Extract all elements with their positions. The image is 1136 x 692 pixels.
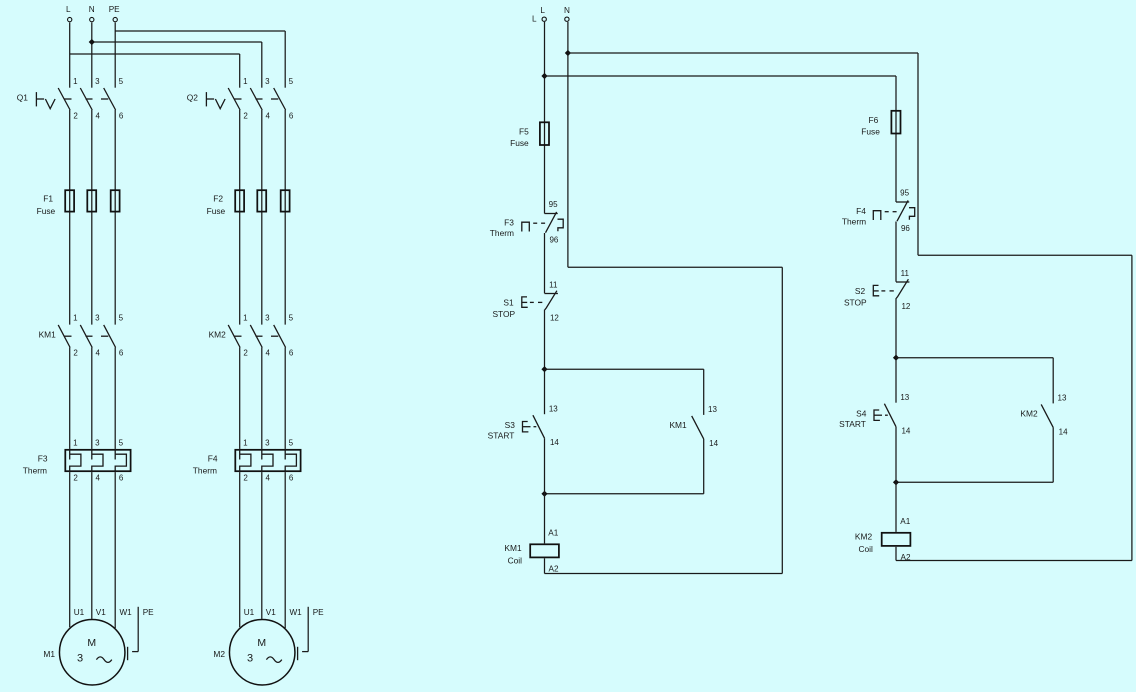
svg-text:3: 3 (265, 314, 270, 323)
NO pushbutton contact (874, 393, 911, 436)
Q1 linkage (64, 98, 71, 100)
svg-text:4: 4 (95, 349, 100, 358)
wire N rail to branch 2 (568, 52, 918, 54)
svg-text:Therm: Therm (23, 465, 47, 475)
svg-text:W1: W1 (289, 608, 302, 617)
svg-text:N: N (89, 5, 95, 14)
svg-text:W1: W1 (119, 608, 132, 617)
svg-text:PE: PE (143, 608, 154, 617)
Q2 pole blade 5-6 (274, 88, 286, 110)
wire control L vertical (terminal to F5) (544, 22, 546, 214)
svg-text:Coil: Coil (858, 544, 873, 554)
svg-text:STOP: STOP (492, 309, 515, 319)
svg-text:M1: M1 (43, 649, 55, 659)
svg-text:M: M (87, 637, 96, 649)
F1 cartridge 3 (111, 190, 120, 211)
svg-text:3: 3 (247, 652, 253, 664)
svg-text:START: START (488, 431, 515, 441)
M1 sine symbol (96, 657, 111, 663)
wire V1 (F3 to motor M1) (91, 472, 93, 619)
svg-text:Fuse: Fuse (37, 206, 56, 216)
pushbutton actuator (873, 285, 879, 295)
wire S2 to S4 (895, 298, 897, 403)
seat (545, 213, 558, 215)
svg-text:96: 96 (901, 224, 910, 233)
blade (896, 279, 908, 298)
svg-text:U1: U1 (244, 608, 255, 617)
svg-text:4: 4 (95, 112, 100, 121)
svg-text:2: 2 (73, 112, 78, 121)
wire PE (Q1 to KM1 through F1) (114, 110, 116, 325)
svg-text:F4: F4 (208, 453, 218, 463)
svg-text:V1: V1 (266, 608, 276, 617)
motor M1 (43, 608, 132, 685)
thermal overload relay F3 (23, 439, 131, 483)
seat (896, 281, 909, 283)
pushbutton actuator (523, 422, 529, 432)
svg-text:L: L (66, 5, 71, 14)
svg-text:6: 6 (119, 349, 124, 358)
blade (546, 212, 557, 233)
wire F3 to S1 (544, 233, 546, 293)
svg-text:U1: U1 (74, 608, 85, 617)
wire F4 to S2 (895, 222, 897, 282)
KM2 linkage (234, 335, 241, 337)
motor frame terminal tick (127, 647, 129, 660)
thermal actuator hook (558, 219, 564, 231)
svg-text:6: 6 (289, 112, 294, 121)
svg-text:Coil: Coil (508, 556, 523, 566)
svg-text:3: 3 (95, 314, 100, 323)
svg-text:1: 1 (73, 439, 78, 448)
wire N return vertical (branch 2) (1131, 255, 1133, 560)
blade (533, 415, 545, 438)
M2 body circle (229, 619, 295, 685)
KM2 pole blade 1-2 (228, 325, 240, 348)
PE stub to motor frame (298, 607, 325, 660)
wire N vertical (terminal to Q1) (91, 22, 93, 87)
KM1 linkage (64, 335, 71, 337)
F2 cartridge 1 (235, 190, 244, 211)
pushbutton actuator (522, 297, 528, 307)
blade (545, 291, 557, 310)
Q1 pole blade 5-6 (104, 88, 116, 110)
svg-text:KM1: KM1 (39, 329, 57, 339)
wire KM2 aux lower (1052, 427, 1054, 482)
wire KM1 aux lower (703, 439, 705, 494)
fuse F2 (3x) (207, 190, 290, 216)
linkage dashes (885, 211, 889, 213)
fuse F6 (861, 111, 900, 137)
svg-text:S3: S3 (505, 420, 516, 430)
terminal N (89, 5, 95, 22)
wire A2 horizontal return (2) (896, 560, 1132, 562)
svg-text:KM2: KM2 (855, 531, 873, 541)
KM2 pole blade 5-6 (274, 325, 286, 348)
PE stub to motor frame (128, 607, 155, 660)
F3 heater element 1 (70, 449, 81, 472)
wire coil KM1 to return (544, 558, 546, 573)
Q1 pole blade 1-2 (58, 88, 70, 110)
svg-text:START: START (839, 419, 866, 429)
wire S1 to S3 (544, 310, 546, 415)
svg-text:M2: M2 (213, 649, 225, 659)
wire A2 horizontal return (545, 573, 783, 575)
wire L vertical (terminal to Q1) (69, 22, 71, 87)
KM1 pole blade 5-6 (104, 325, 116, 348)
svg-text:1: 1 (243, 314, 248, 323)
wire PE drop to Q2 (284, 31, 286, 88)
svg-text:F4: F4 (856, 206, 866, 216)
junction on N rail (89, 39, 95, 45)
svg-text:3: 3 (265, 77, 270, 86)
F1 cartridge 1 (65, 190, 74, 211)
svg-text:5: 5 (289, 77, 294, 86)
NC pushbutton contact (873, 269, 911, 311)
Q2 pole blade 1-2 (228, 88, 240, 110)
wire PE horizontal (132, 651, 138, 653)
svg-text:3: 3 (77, 652, 83, 664)
wire control N vertical (567, 22, 569, 267)
svg-text:6: 6 (289, 349, 294, 358)
svg-text:95: 95 (549, 200, 558, 209)
linkage dashes (533, 222, 537, 224)
F2 cartridge 2 (257, 190, 266, 211)
wire L (KM2 to F4) (239, 348, 241, 449)
svg-text:F6: F6 (869, 115, 879, 125)
wire PE vertical (terminal to Q1) (114, 22, 116, 87)
linkage dashes (881, 290, 885, 292)
wire N rail to right edge (918, 254, 1132, 256)
svg-text:Fuse: Fuse (861, 127, 880, 137)
wire S4 to coil KM2 (895, 427, 897, 532)
svg-text:KM1: KM1 (669, 420, 687, 430)
svg-text:5: 5 (289, 439, 294, 448)
svg-text:Fuse: Fuse (510, 138, 529, 148)
svg-text:14: 14 (709, 439, 718, 448)
svg-text:5: 5 (119, 77, 124, 86)
linkage dashes (530, 301, 534, 303)
blade (1041, 404, 1053, 427)
svg-text:3: 3 (95, 439, 100, 448)
wire L feed to branch 2 (545, 75, 897, 77)
junction control L (541, 73, 547, 79)
linkage dashes (879, 414, 882, 416)
svg-text:13: 13 (708, 405, 717, 414)
svg-text:2: 2 (243, 473, 248, 482)
svg-text:6: 6 (119, 473, 124, 482)
wire L rail (70, 53, 240, 55)
contactor coil KM2 (855, 531, 911, 554)
svg-text:95: 95 (900, 189, 909, 198)
svg-text:F5: F5 (519, 127, 529, 137)
F1 cartridge 2 (87, 190, 96, 211)
seat (545, 293, 558, 295)
svg-text:12: 12 (901, 302, 910, 311)
svg-text:13: 13 (900, 393, 909, 402)
wire coil KM2 to return (895, 547, 897, 561)
svg-text:5: 5 (119, 439, 124, 448)
svg-text:11: 11 (549, 280, 558, 289)
svg-text:F3: F3 (504, 217, 514, 227)
wire L (KM1 to F3) (69, 348, 71, 449)
thermal overload relay F4 (193, 439, 301, 483)
junction start-branch bottom (541, 491, 547, 497)
svg-text:Q1: Q1 (17, 92, 29, 102)
svg-text:STOP: STOP (844, 298, 867, 308)
fuse F1 (3x) (37, 190, 120, 216)
wire PE horizontal (302, 651, 308, 653)
svg-text:11: 11 (901, 269, 910, 278)
terminal PE (109, 5, 120, 22)
wire N drop to Q2 (261, 42, 263, 88)
svg-text:S2: S2 (855, 286, 866, 296)
svg-text:6: 6 (119, 112, 124, 121)
wire PE (KM2 to F4) (284, 348, 286, 449)
F3 heater element 2 (92, 449, 103, 472)
svg-text:L: L (532, 15, 537, 24)
wire branch to KM1 aux (top) (545, 368, 704, 370)
svg-text:N: N (564, 6, 570, 15)
auxiliary NO contact KM1 (669, 405, 718, 448)
svg-text:Therm: Therm (490, 228, 514, 238)
wire N rail drop (917, 53, 919, 255)
thermal NC contact F4 (873, 189, 914, 234)
blade (692, 416, 704, 439)
wire PE (KM1 to F3) (114, 348, 116, 449)
svg-text:1: 1 (243, 77, 248, 86)
svg-text:S4: S4 (856, 408, 867, 418)
wire PE drop (307, 607, 309, 652)
svg-text:1: 1 (73, 77, 78, 86)
contactor power contacts KM1 (39, 314, 124, 358)
auxiliary NO contact KM2 (1020, 394, 1068, 437)
terminal L (control) (540, 6, 546, 21)
wire N return vertical (branch 1) (781, 267, 783, 573)
M2 sine symbol (266, 657, 281, 663)
contactor power contacts KM2 (209, 314, 294, 358)
F4 heater element 2 (262, 449, 273, 472)
svg-text:Q2: Q2 (187, 92, 199, 102)
circuit-breaker Q1 (17, 77, 124, 121)
wire branch2 L vertical (to F6) (895, 76, 897, 202)
manual actuator (873, 211, 881, 220)
wire branch from KM2 aux (bottom) (896, 481, 1053, 483)
wire KM1 aux upper (703, 369, 705, 415)
svg-text:Therm: Therm (193, 465, 217, 475)
wire KM2 aux upper (1052, 358, 1054, 404)
circuit-breaker Q2 (187, 77, 294, 121)
manual actuator (522, 222, 530, 231)
svg-text:F1: F1 (43, 193, 53, 203)
svg-text:13: 13 (1058, 394, 1067, 403)
NO pushbutton contact (523, 404, 560, 447)
svg-text:5: 5 (289, 314, 294, 323)
svg-text:1: 1 (73, 314, 78, 323)
Q2 linkage (234, 98, 241, 100)
junction start-branch top (541, 366, 547, 372)
Q1 pole blade 3-4 (80, 88, 92, 110)
F3 heater element 3 (115, 449, 126, 472)
svg-text:F2: F2 (213, 193, 223, 203)
svg-text:A1: A1 (548, 529, 558, 538)
svg-text:14: 14 (1059, 427, 1068, 436)
wire L drop to Q2 (239, 54, 241, 88)
M1 body circle (59, 619, 125, 685)
wire PE rail (115, 30, 285, 32)
wire L (Q1 to KM1 through F1) (69, 110, 71, 325)
KM1 pole blade 3-4 (80, 325, 92, 348)
wire N rail (92, 41, 262, 43)
wire N (Q2 to KM2 through F2) (261, 110, 263, 325)
wire N (Q1 to KM1 through F1) (91, 110, 93, 325)
svg-text:F3: F3 (38, 453, 48, 463)
svg-text:KM1: KM1 (504, 543, 522, 553)
svg-text:2: 2 (243, 349, 248, 358)
svg-text:4: 4 (265, 112, 270, 121)
wire N return horizontal (branch 1) (568, 266, 782, 268)
Q2 pole blade 3-4 (250, 88, 262, 110)
blade (884, 404, 896, 427)
terminal N (control) (564, 6, 570, 21)
motor M2 (213, 608, 302, 685)
junction start-branch top (2) (893, 355, 899, 361)
svg-text:PE: PE (313, 608, 324, 617)
fuse F5 (510, 122, 549, 148)
svg-text:Fuse: Fuse (207, 206, 226, 216)
wire W1 (F4 to motor M2) (284, 472, 286, 628)
Q2 operating mechanism (205, 92, 207, 106)
junction control N (565, 50, 571, 56)
motor frame terminal tick (297, 647, 299, 660)
thermal actuator hook (909, 208, 915, 220)
svg-text:PE: PE (109, 5, 120, 14)
svg-text:M: M (257, 637, 266, 649)
wire W1 (F3 to motor M1) (114, 472, 116, 628)
KM1 pole blade 1-2 (58, 325, 70, 348)
svg-text:2: 2 (243, 112, 248, 121)
svg-text:4: 4 (265, 473, 270, 482)
thermal NC contact F3 (522, 200, 563, 245)
svg-text:4: 4 (95, 473, 100, 482)
svg-text:14: 14 (901, 427, 910, 436)
linkage dashes (528, 426, 531, 428)
svg-text:L: L (540, 6, 545, 15)
pushbutton actuator (874, 410, 880, 420)
svg-text:2: 2 (73, 349, 78, 358)
svg-text:S1: S1 (503, 298, 514, 308)
svg-text:KM2: KM2 (1020, 408, 1038, 418)
F4 enclosure (235, 450, 300, 471)
seat (896, 201, 909, 203)
F4 heater element 3 (285, 449, 296, 472)
KM2 pole blade 3-4 (250, 325, 262, 348)
svg-text:14: 14 (550, 438, 559, 447)
svg-text:5: 5 (119, 314, 124, 323)
wire V1 (F4 to motor M2) (261, 472, 263, 619)
contactor coil KM1 (504, 543, 559, 566)
junction start-branch bottom (2) (893, 479, 899, 485)
F4 heater element 1 (240, 449, 251, 472)
svg-text:3: 3 (95, 77, 100, 86)
svg-text:96: 96 (549, 236, 558, 245)
wire L (Q2 to KM2 through F2) (239, 110, 241, 325)
svg-text:A1: A1 (900, 517, 910, 526)
F2 cartridge 3 (281, 190, 290, 211)
wire branch from KM1 aux (bottom) (545, 493, 704, 495)
wire PE (Q2 to KM2 through F2) (284, 110, 286, 325)
svg-text:A2: A2 (548, 565, 558, 574)
svg-text:V1: V1 (96, 608, 106, 617)
wire S3 to coil KM1 (544, 438, 546, 543)
F3 enclosure (65, 450, 130, 471)
svg-text:6: 6 (289, 473, 294, 482)
NC pushbutton contact (522, 280, 560, 322)
svg-text:12: 12 (550, 314, 559, 323)
svg-text:2: 2 (73, 473, 78, 482)
wire PE drop (137, 607, 139, 652)
Q1 operating mechanism (35, 92, 37, 106)
wire branch to KM2 aux (top) (896, 357, 1053, 359)
svg-text:3: 3 (265, 439, 270, 448)
wire U1 (F3 to motor M1) (69, 472, 71, 627)
svg-text:KM2: KM2 (209, 329, 227, 339)
terminal L (66, 5, 72, 22)
wire U1 (F4 to motor M2) (239, 472, 241, 627)
wire N (KM1 to F3) (91, 348, 93, 449)
wire N (KM2 to F4) (261, 348, 263, 449)
svg-text:Therm: Therm (842, 216, 866, 226)
svg-text:1: 1 (243, 439, 248, 448)
svg-text:13: 13 (549, 404, 558, 413)
svg-text:4: 4 (265, 349, 270, 358)
blade (897, 200, 908, 221)
